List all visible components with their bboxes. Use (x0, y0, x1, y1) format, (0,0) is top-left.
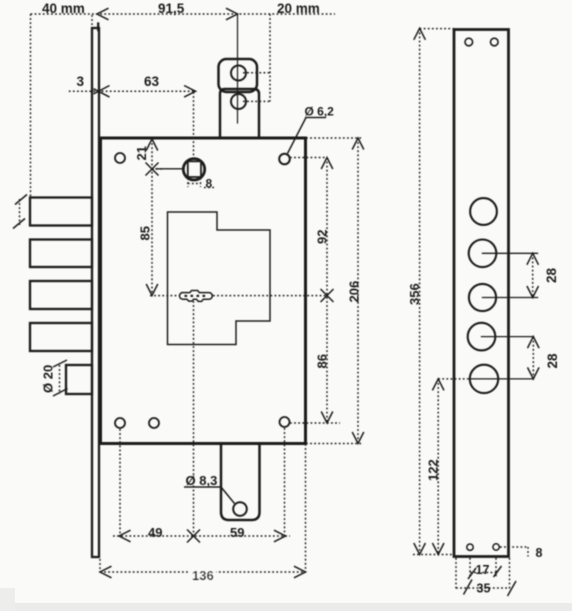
svg-text:Ø 8,3: Ø 8,3 (186, 473, 218, 488)
svg-text:86: 86 (314, 354, 329, 368)
svg-text:40 mm: 40 mm (42, 1, 85, 16)
svg-text:63: 63 (144, 74, 160, 89)
svg-text:Ø 20: Ø 20 (41, 365, 56, 393)
svg-text:20 mm: 20 mm (277, 1, 320, 16)
svg-text:35: 35 (477, 582, 491, 596)
svg-text:85: 85 (138, 226, 153, 240)
svg-text:17: 17 (476, 563, 490, 577)
svg-text:49: 49 (148, 525, 162, 540)
svg-text:206: 206 (347, 281, 362, 303)
svg-text:8: 8 (536, 546, 543, 560)
svg-text:59: 59 (230, 525, 244, 540)
svg-text:122: 122 (426, 459, 441, 481)
svg-text:91,5: 91,5 (158, 1, 185, 16)
svg-text:136: 136 (192, 568, 214, 583)
svg-text:Ø 6,2: Ø 6,2 (305, 105, 335, 119)
svg-text:3: 3 (77, 74, 85, 89)
svg-text:21: 21 (134, 146, 149, 160)
svg-text:28: 28 (545, 353, 560, 369)
svg-text:8: 8 (206, 177, 213, 191)
svg-text:28: 28 (544, 267, 559, 283)
svg-text:356: 356 (407, 283, 422, 305)
svg-text:92: 92 (314, 230, 329, 244)
